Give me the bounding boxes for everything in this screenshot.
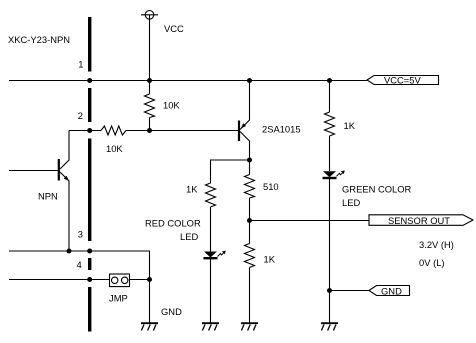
junction pin1-bar	[87, 78, 92, 83]
connector J1 body	[88, 17, 91, 332]
wire jmp to node	[130, 279, 150, 281]
svg-text:2SA1015: 2SA1015	[262, 124, 301, 135]
svg-text:NPN: NPN	[38, 191, 58, 202]
junction jmp-node	[147, 277, 152, 282]
junction pin3-emitter	[67, 249, 72, 254]
svg-text:1K: 1K	[344, 120, 356, 131]
svg-text:SENSOR OUT: SENSOR OUT	[388, 215, 450, 226]
svg-text:3.2V (H): 3.2V (H)	[419, 239, 454, 250]
transistor Q2 2SA1015	[239, 81, 250, 161]
junction pin3-bar	[87, 249, 92, 254]
resistor 10K horizontal	[101, 126, 126, 135]
wire pin1 row	[9, 80, 367, 82]
svg-text:2: 2	[78, 110, 83, 121]
svg-text:VCC: VCC	[164, 23, 184, 34]
junction pin4-bar	[87, 277, 92, 282]
svg-text:10K: 10K	[163, 100, 180, 111]
wire pin4 row	[9, 279, 110, 281]
wire sensor row	[250, 220, 370, 222]
svg-text:JMP: JMP	[109, 293, 128, 304]
wire pin2 row right	[126, 130, 238, 132]
svg-text:4: 4	[77, 259, 82, 270]
LED D2 green	[323, 170, 345, 178]
ground middle branch	[241, 323, 258, 330]
svg-text:XKC-Y23-NPN: XKC-Y23-NPN	[8, 34, 70, 45]
transistor Q1 NPN	[9, 131, 69, 252]
junction sensor-node	[247, 218, 252, 223]
ground jmp branch	[141, 323, 158, 330]
svg-text:GREEN COLOR: GREEN COLOR	[342, 184, 412, 195]
wire pin3 row	[9, 251, 150, 280]
junction pin2-resistor	[147, 128, 152, 133]
resistor 1K bottom	[245, 221, 255, 323]
junction collector-node	[247, 158, 252, 163]
svg-text:GND: GND	[161, 306, 182, 317]
svg-text:0V (L): 0V (L)	[419, 257, 445, 268]
net flag VCC=5V	[367, 75, 439, 86]
junction emitter-top	[247, 78, 252, 83]
ground red branch	[202, 323, 219, 330]
svg-text:1: 1	[78, 59, 83, 70]
svg-text:3: 3	[78, 229, 83, 240]
ground green branch	[321, 323, 338, 330]
junction pin2-bar	[87, 128, 92, 133]
wire green led to ground	[329, 178, 331, 323]
wire pin2 row left	[69, 130, 101, 132]
svg-text:LED: LED	[342, 197, 360, 208]
jumper JMP	[110, 274, 130, 287]
junction led-branch-top	[327, 78, 332, 83]
svg-text:1K: 1K	[186, 184, 198, 195]
svg-text:510: 510	[263, 181, 279, 192]
junction gnd-node	[327, 288, 332, 293]
resistor 510	[245, 160, 255, 221]
resistor 10K vertical	[145, 81, 155, 131]
junction vcc-stem	[147, 78, 152, 83]
wire node to ground	[149, 280, 151, 323]
svg-text:1K: 1K	[264, 254, 276, 265]
svg-text:LED: LED	[180, 231, 198, 242]
net flag GND	[369, 286, 410, 297]
resistor 1K green branch	[325, 81, 335, 172]
wire 1K to red led	[210, 207, 212, 252]
svg-text:GND: GND	[381, 286, 402, 297]
svg-text:10K: 10K	[106, 143, 123, 154]
wire gnd flag stub	[330, 290, 370, 292]
power symbol VCC	[141, 11, 158, 81]
resistor 1K red branch	[206, 183, 216, 207]
svg-text:VCC=5V: VCC=5V	[384, 75, 421, 86]
wire red led to ground	[210, 258, 212, 323]
svg-text:RED COLOR: RED COLOR	[145, 218, 201, 229]
net flag SENSOR OUT	[369, 215, 473, 226]
LED D1 red	[204, 251, 226, 259]
wire collector-node to red-led branch	[211, 160, 250, 183]
